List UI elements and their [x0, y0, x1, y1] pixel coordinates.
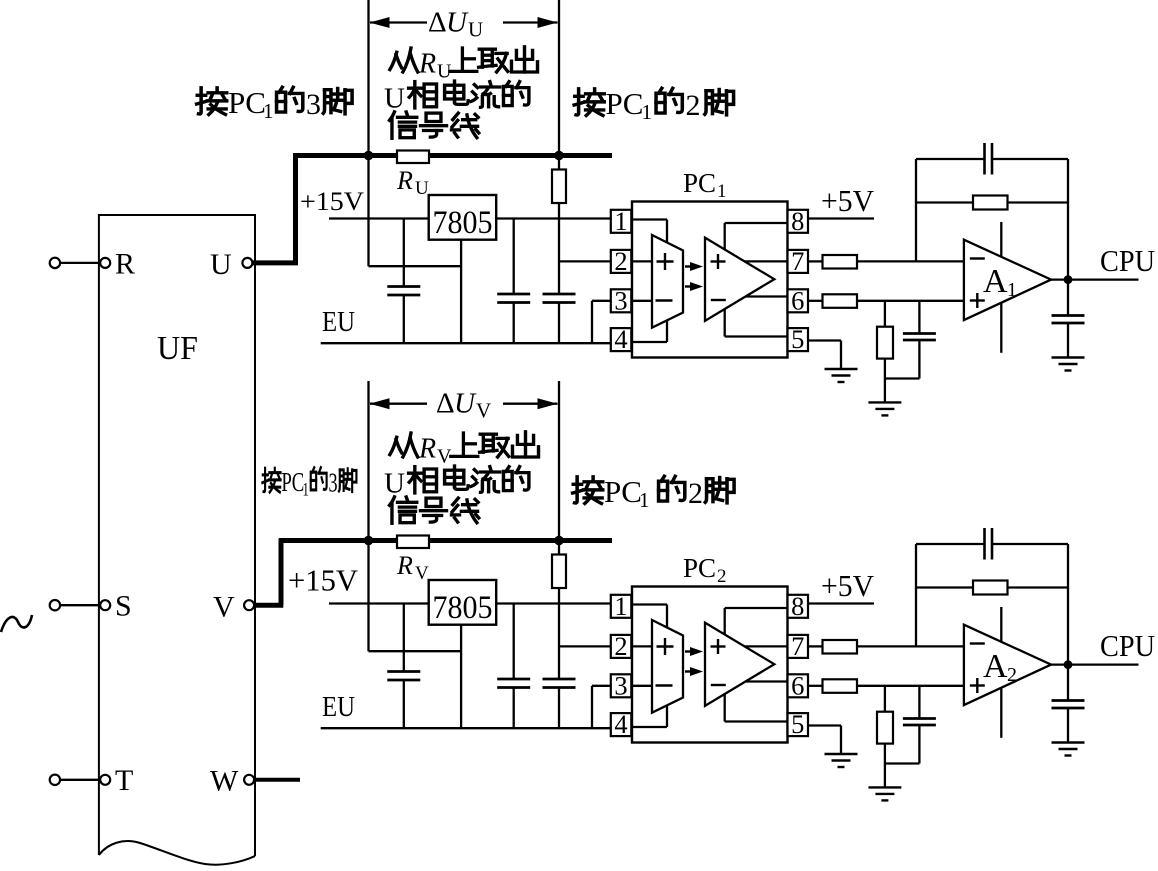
- capacitor to ground on pin 6 net: [903, 686, 936, 764]
- svg-text:1: 1: [303, 480, 309, 500]
- svg-text:2: 2: [717, 566, 727, 587]
- label note line2 bottom: U-phase current: [384, 466, 529, 499]
- svg-text:5: 5: [791, 709, 804, 739]
- wire pin 5 to output stage: [725, 694, 788, 722]
- svg-text:4: 4: [614, 709, 627, 739]
- wire feedback left leg: [915, 544, 917, 646]
- wire +15V rail: [329, 602, 611, 604]
- wire RC to ground: [884, 379, 886, 403]
- label V output: [213, 591, 235, 624]
- label note line3 bottom: signal line: [389, 497, 478, 523]
- svg-text:7: 7: [791, 631, 804, 661]
- terminal V of UF: [244, 600, 254, 610]
- ground at pin 5: [825, 369, 858, 382]
- svg-text:1: 1: [639, 488, 650, 512]
- svg-text:U: U: [384, 82, 405, 114]
- svg-text:3: 3: [614, 285, 627, 315]
- svg-text:7: 7: [791, 246, 804, 276]
- wire feedback right leg: [1067, 159, 1069, 280]
- label delta-U-V: [436, 388, 491, 423]
- pin 4 of PC1: [611, 324, 632, 354]
- label connect-to-PC1-pin3 (top): [197, 85, 352, 123]
- label + input of A2: [970, 678, 985, 693]
- wire right junction to pin 2: [559, 260, 611, 262]
- label EU: [322, 691, 355, 723]
- wire pin 6 to output stage: [746, 680, 788, 682]
- label +15V bottom channel: [288, 563, 359, 598]
- node output junction: [1064, 275, 1073, 284]
- label - input of A1: [970, 257, 985, 259]
- wire pin 5 to ground: [808, 341, 841, 370]
- svg-text:8: 8: [791, 206, 804, 236]
- terminal S input lead: [50, 600, 99, 610]
- svg-text:PC: PC: [606, 86, 644, 121]
- svg-text:T: T: [115, 764, 133, 797]
- wire A2 positive supply stub: [1000, 607, 1002, 642]
- wire pin 3 to EU rail: [592, 686, 611, 727]
- svg-text:R: R: [418, 434, 436, 465]
- label CPU: [1100, 243, 1155, 278]
- resistor series pin 7: [808, 640, 964, 654]
- svg-text:1: 1: [614, 206, 627, 236]
- wire feedback right leg: [1067, 544, 1069, 665]
- svg-text:+5V: +5V: [821, 568, 875, 603]
- label note line1 bottom: cong RV qu-chu: [390, 432, 539, 468]
- wire pin 8 to +5V: [808, 602, 874, 604]
- wire A1 output to CPU: [1051, 278, 1138, 280]
- label connect-to-PC1-pin3 (bottom, small): [262, 467, 356, 500]
- svg-text:7805: 7805: [433, 590, 493, 626]
- terminal R input lead: [50, 258, 99, 268]
- svg-text:+5V: +5V: [821, 183, 875, 218]
- wire +15V rail: [329, 217, 611, 219]
- transducer input stage of PC2 (trapezoid): [652, 620, 683, 713]
- capacitor output filter 2: [543, 679, 576, 728]
- resistor to ground on pin 6 net: [877, 686, 893, 764]
- svg-text:CPU: CPU: [1100, 243, 1155, 278]
- op-amp isolation amplifier PC1 package: [632, 202, 788, 358]
- wire A1 positive supply stub: [1000, 222, 1002, 257]
- op-amp A2: [964, 625, 1051, 705]
- node delta-U-U right tick: [558, 0, 560, 156]
- inverter block UF: [99, 215, 255, 865]
- label RV: [396, 551, 429, 584]
- svg-text:2: 2: [614, 631, 627, 661]
- wire pin 7 to output stage: [744, 260, 787, 262]
- svg-text:PC: PC: [604, 474, 642, 509]
- ground at output capacitor: [1052, 358, 1085, 371]
- capacitor feedback: [916, 143, 1068, 175]
- ground at pin 5: [825, 754, 858, 767]
- terminal S of UF: [100, 590, 131, 623]
- label PC1: [683, 168, 727, 202]
- wire EU rail: [321, 727, 611, 729]
- pin 3 of PC1: [611, 285, 632, 315]
- svg-text:S: S: [115, 590, 132, 623]
- svg-text:2: 2: [1007, 664, 1017, 686]
- pin 5 of PC1: [788, 324, 809, 354]
- terminal U of UF: [242, 258, 252, 268]
- svg-text:8: 8: [791, 591, 804, 621]
- amplifier output stage of PC2 (triangle): [705, 623, 774, 706]
- svg-text:+15V: +15V: [288, 563, 359, 598]
- resistor sense divider: [552, 543, 566, 679]
- coupling arrow lower: [685, 667, 703, 676]
- svg-text:CPU: CPU: [1100, 628, 1155, 663]
- coupling arrow upper: [685, 647, 703, 656]
- op-amp A1: [964, 240, 1051, 320]
- wire pin 1 to LED stage: [631, 605, 667, 629]
- label - of input stage: [656, 299, 673, 301]
- pin 5 of PC2: [788, 709, 809, 739]
- svg-text:Δ: Δ: [428, 7, 447, 39]
- wire A2 negative supply stub: [1000, 688, 1002, 738]
- resistor RV (shunt): [397, 536, 429, 549]
- svg-text:A: A: [983, 263, 1008, 300]
- svg-text:U: U: [415, 178, 429, 199]
- wire EU rail: [321, 342, 611, 344]
- node junction left on shunt wire: [364, 536, 374, 546]
- svg-text:EU: EU: [322, 691, 355, 723]
- label + of output stage: [711, 254, 726, 269]
- capacitor on output: [1052, 665, 1085, 743]
- amplifier output stage of PC1 (triangle): [705, 238, 774, 321]
- svg-text:4: 4: [614, 324, 627, 354]
- capacitor input filter: [387, 604, 420, 729]
- svg-text:3: 3: [329, 468, 338, 497]
- wire left junction to 7805 ground: [369, 543, 462, 651]
- svg-text:1: 1: [1007, 279, 1017, 301]
- resistor series pin 7: [808, 255, 964, 269]
- svg-text:A: A: [983, 648, 1008, 685]
- svg-text:U: U: [454, 388, 477, 420]
- wire pin 3 to - input: [631, 685, 652, 687]
- coupling arrow upper: [685, 262, 703, 271]
- svg-text:7805: 7805: [433, 205, 493, 241]
- terminal R of UF: [100, 247, 135, 280]
- label note line2 top: U-phase current: [384, 81, 529, 114]
- pin 8 of PC2: [788, 591, 809, 621]
- svg-text:+15V: +15V: [300, 187, 364, 216]
- svg-text:PC: PC: [683, 168, 716, 198]
- svg-text:3: 3: [614, 670, 627, 700]
- wire pin 3 to EU rail: [592, 301, 611, 342]
- svg-text:5: 5: [791, 324, 804, 354]
- capacitor feedback: [916, 528, 1068, 560]
- label + input of A1: [970, 293, 985, 308]
- label - input of A2: [970, 642, 985, 644]
- resistor series pin 6: [808, 294, 964, 308]
- svg-text:2: 2: [614, 246, 627, 276]
- svg-text:EU: EU: [322, 306, 355, 338]
- dimension arrow delta-U-U: [370, 17, 558, 28]
- svg-text:R: R: [115, 247, 135, 280]
- wire pin 5 to output stage: [725, 309, 788, 337]
- wire pin 8 to output stage: [725, 608, 788, 635]
- label PC2: [683, 553, 727, 587]
- label + of input stage: [657, 253, 674, 270]
- resistor series pin 6: [808, 679, 964, 693]
- svg-text:UF: UF: [157, 330, 198, 367]
- svg-text:R: R: [418, 49, 436, 80]
- ground at output capacitor: [1052, 743, 1085, 756]
- node delta-U-V right tick: [558, 381, 560, 541]
- wire pin 2 to + input: [631, 260, 652, 262]
- svg-text:6: 6: [791, 285, 804, 315]
- pin 1 of PC2: [611, 591, 632, 621]
- label UF: [157, 330, 198, 367]
- svg-text:R: R: [396, 551, 413, 580]
- label connect-to-PC1-pin2 (bottom): [573, 474, 734, 512]
- node delta-U-U left tick: [367, 0, 369, 156]
- label EU: [322, 306, 355, 338]
- wire feedback left leg: [915, 159, 917, 261]
- svg-text:U: U: [384, 467, 405, 499]
- svg-text:1: 1: [263, 99, 274, 123]
- label RU: [396, 166, 429, 199]
- capacitor input filter: [387, 219, 420, 344]
- svg-text:U: U: [446, 7, 469, 39]
- capacitor output filter 2: [543, 294, 576, 343]
- resistor RU (shunt): [397, 151, 429, 164]
- wire U phase tap (thick): [253, 154, 299, 263]
- node junction right on shunt wire: [554, 536, 564, 546]
- wire A1 negative supply stub: [1000, 303, 1002, 353]
- label ~ AC input: [1, 615, 32, 632]
- label note line3 top: signal line: [389, 112, 478, 138]
- label +5V: [821, 568, 875, 603]
- svg-text:1: 1: [614, 591, 627, 621]
- svg-text:PC: PC: [683, 553, 716, 583]
- capacitor output filter 1: [497, 219, 530, 344]
- wire RC to ground: [884, 764, 886, 788]
- wire pin 6 to output stage: [746, 295, 788, 297]
- label +15V top channel: [300, 187, 364, 216]
- svg-text:PC: PC: [228, 85, 266, 120]
- pin 7 of PC2: [788, 631, 809, 661]
- op-amp isolation amplifier PC2 package: [632, 587, 788, 743]
- ground under RC: [868, 402, 901, 415]
- wire pin 5 to ground: [808, 726, 841, 755]
- wire pin 8 to output stage: [725, 223, 788, 250]
- pin 8 of PC1: [788, 206, 809, 236]
- pin 6 of PC2: [788, 670, 809, 700]
- label A2: [983, 648, 1017, 686]
- pin 2 of PC2: [611, 631, 632, 661]
- terminal W of UF: [244, 775, 254, 785]
- svg-text:V: V: [476, 399, 491, 423]
- svg-text:2: 2: [686, 89, 701, 122]
- label - of output stage: [711, 299, 726, 301]
- label CPU: [1100, 628, 1155, 663]
- wire pin 7 to output stage: [744, 645, 787, 647]
- capacitor to ground on pin 6 net: [903, 301, 936, 379]
- svg-text:PC: PC: [281, 467, 304, 498]
- svg-text:V: V: [415, 563, 429, 584]
- svg-text:1: 1: [642, 100, 653, 124]
- wire pin 2 to + input: [631, 645, 652, 647]
- label + of output stage: [711, 639, 726, 654]
- label - of output stage: [711, 684, 726, 686]
- ground under RC: [868, 787, 901, 800]
- svg-text:V: V: [213, 591, 235, 624]
- label + of input stage: [657, 638, 674, 655]
- wire V phase tap (thick): [254, 539, 283, 606]
- wire pin 1 to LED stage: [631, 220, 667, 244]
- label W output: [210, 765, 239, 798]
- svg-text:R: R: [396, 166, 413, 195]
- svg-text:2: 2: [688, 477, 703, 510]
- svg-text:U: U: [468, 18, 483, 42]
- pin 7 of PC1: [788, 246, 809, 276]
- node junction left on shunt wire: [364, 151, 374, 161]
- capacitor output filter 1: [497, 604, 530, 729]
- terminal T input lead: [50, 775, 99, 785]
- regulator 7805 (U channel): [429, 195, 497, 241]
- node junction right on shunt wire: [554, 151, 564, 161]
- resistor feedback: [916, 581, 1068, 595]
- resistor feedback: [916, 196, 1068, 210]
- wire pin 8 to +5V: [808, 217, 874, 219]
- pin 2 of PC1: [611, 246, 632, 276]
- wire A2 output to CPU: [1051, 663, 1138, 665]
- wire right junction to pin 2: [559, 645, 611, 647]
- wire 7805 ground pin: [460, 240, 462, 344]
- wire RC bottom link: [885, 377, 920, 379]
- svg-text:W: W: [210, 765, 239, 798]
- transducer input stage of PC1 (trapezoid): [652, 235, 683, 328]
- node output junction: [1064, 660, 1073, 669]
- svg-text:6: 6: [791, 670, 804, 700]
- wire W phase stub (thick): [254, 778, 300, 782]
- svg-text:Δ: Δ: [436, 388, 455, 420]
- label delta-U-U: [428, 7, 483, 42]
- pin 1 of PC1: [611, 206, 632, 236]
- svg-text:3: 3: [306, 88, 321, 121]
- wire shunt line U-phase (thick): [293, 153, 612, 158]
- svg-text:U: U: [210, 248, 232, 281]
- coupling arrow lower: [685, 282, 703, 291]
- svg-text:1: 1: [717, 181, 727, 202]
- terminal T of UF: [100, 764, 133, 797]
- resistor sense divider: [552, 158, 566, 294]
- regulator 7805 (V channel): [429, 580, 497, 626]
- wire pin 4 to LED stage: [631, 320, 667, 342]
- label U output: [210, 248, 232, 281]
- node delta-U-V left tick: [367, 381, 369, 541]
- dimension arrow delta-U-V: [370, 398, 558, 409]
- wire pin 3 to - input: [631, 300, 652, 302]
- resistor to ground on pin 6 net: [877, 301, 893, 379]
- wire RC bottom link: [885, 762, 920, 764]
- capacitor on output: [1052, 280, 1085, 358]
- wire 7805 ground pin: [460, 625, 462, 729]
- pin 3 of PC2: [611, 670, 632, 700]
- label connect-to-PC1-pin2 (top): [574, 86, 733, 124]
- pin 4 of PC2: [611, 709, 632, 739]
- label note line1 top: cong RU qu-chu: [390, 47, 538, 83]
- wire pin 4 to LED stage: [631, 705, 667, 727]
- wire left junction to 7805 ground: [369, 158, 462, 266]
- pin 6 of PC1: [788, 285, 809, 315]
- label A1: [983, 263, 1017, 301]
- label +5V: [821, 183, 875, 218]
- wire shunt line V-phase (thick): [279, 538, 612, 543]
- label - of input stage: [656, 684, 673, 686]
